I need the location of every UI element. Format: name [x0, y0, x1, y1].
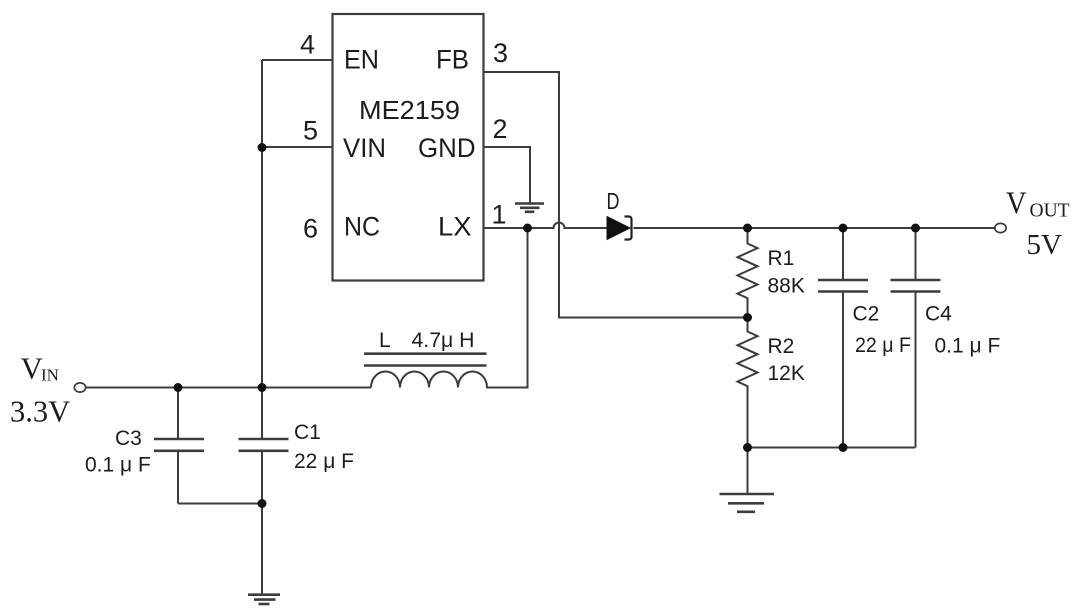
svg-text:12K: 12K	[768, 362, 805, 385]
svg-text:0.1 μ F: 0.1 μ F	[85, 454, 151, 477]
svg-text:6: 6	[303, 214, 318, 244]
svg-text:2: 2	[492, 114, 507, 144]
svg-text:22 μ F: 22 μ F	[855, 334, 911, 357]
svg-text:R1: R1	[768, 247, 795, 270]
svg-text:3: 3	[493, 38, 508, 68]
svg-text:4.7μ H: 4.7μ H	[412, 329, 475, 352]
svg-text:5: 5	[303, 116, 318, 146]
svg-text:LX: LX	[438, 212, 472, 242]
svg-text:88K: 88K	[768, 275, 805, 298]
svg-text:IN: IN	[41, 366, 59, 385]
svg-text:R2: R2	[768, 335, 795, 358]
svg-text:3.3V: 3.3V	[10, 395, 70, 429]
svg-text:C1: C1	[294, 421, 321, 444]
svg-text:EN: EN	[344, 45, 379, 75]
svg-text:1: 1	[491, 200, 506, 230]
svg-text:4: 4	[300, 30, 315, 60]
svg-text:L: L	[379, 329, 391, 352]
svg-text:FB: FB	[436, 45, 469, 75]
svg-text:NC: NC	[344, 212, 380, 242]
svg-text:0.1 μ F: 0.1 μ F	[935, 335, 1001, 358]
svg-text:5V: 5V	[1027, 229, 1063, 261]
svg-text:OUT: OUT	[1030, 200, 1070, 221]
svg-text:ME2159: ME2159	[359, 95, 460, 125]
svg-text:D: D	[607, 188, 620, 214]
svg-text:22 μ F: 22 μ F	[294, 450, 354, 473]
svg-text:V: V	[1006, 185, 1027, 220]
svg-text:GND: GND	[418, 133, 476, 163]
svg-text:C3: C3	[115, 427, 142, 450]
svg-text:C4: C4	[925, 303, 952, 326]
svg-text:C2: C2	[853, 303, 880, 326]
svg-text:VIN: VIN	[343, 133, 386, 163]
